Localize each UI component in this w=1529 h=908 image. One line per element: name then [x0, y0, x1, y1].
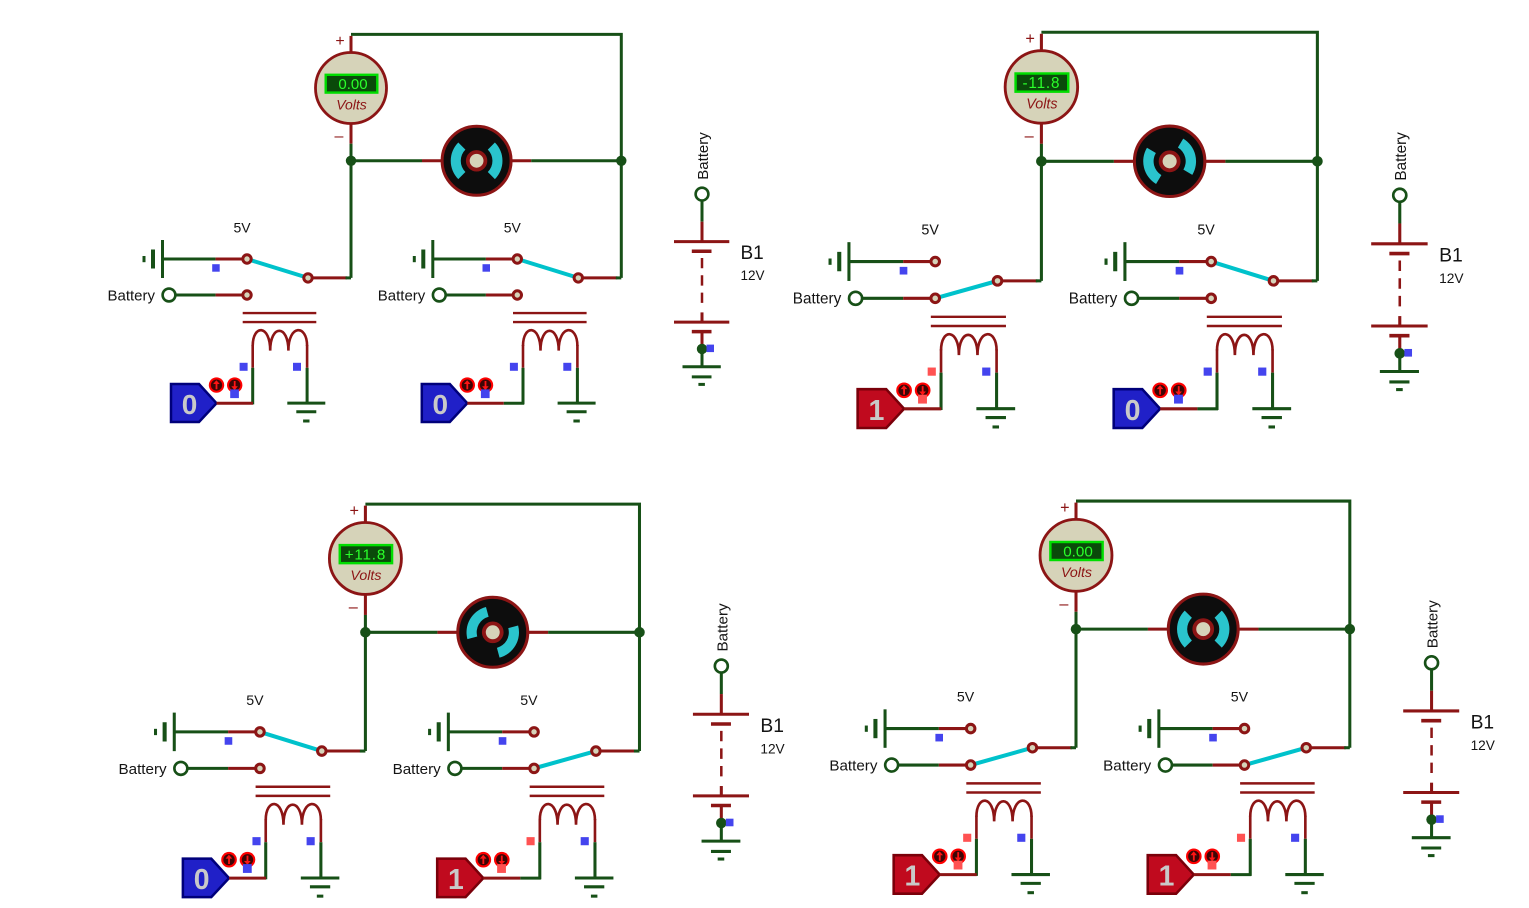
junction node right	[1345, 624, 1356, 635]
wire terminal to B1	[1430, 669, 1433, 711]
ground (B1 column)	[683, 367, 721, 385]
svg-text:12V: 12V	[760, 741, 785, 756]
decrement button (down arrow)	[1204, 849, 1220, 865]
terminal Battery (B1 column)	[1393, 189, 1406, 202]
wire riser to junction	[638, 632, 641, 751]
svg-text:12V: 12V	[1439, 271, 1464, 286]
junction node (B1 ground)	[1426, 814, 1437, 825]
wire junction to ground	[1430, 820, 1433, 838]
junction node right	[616, 156, 626, 166]
battery B1 cell 1	[1371, 244, 1427, 254]
svg-text:0: 0	[433, 389, 449, 420]
net state square (coil drive)	[510, 363, 518, 371]
coil right leg pin	[320, 819, 323, 878]
battery cell 5V (relay RL2 bottom-right)	[1140, 709, 1159, 747]
battery B1 dashed body	[1399, 261, 1402, 308]
relay core (RL1 top-right)	[931, 317, 1006, 326]
net state square (B1 ground)	[1404, 349, 1412, 357]
wire riser to junction	[1040, 161, 1043, 281]
switch contact NO	[931, 294, 940, 303]
switch contact NC	[931, 257, 940, 266]
net state square (coil ground)	[581, 837, 589, 845]
wire riser to junction	[1348, 629, 1351, 748]
ground (relay RL1 top-right)	[976, 409, 1015, 427]
net state square (coil ground)	[1017, 834, 1025, 842]
wire 5V to switch throw	[448, 730, 530, 733]
net state square (coil ground)	[1258, 368, 1266, 376]
motor M1 (bottom-left)	[458, 597, 528, 667]
battery B1 cell 1	[1403, 711, 1459, 721]
net state square (5V wire)	[900, 267, 908, 275]
battery B1 cell 2	[693, 786, 749, 805]
relay switch lever (RL1 top-right)	[935, 281, 997, 298]
svg-text:Battery: Battery	[1103, 757, 1152, 774]
wire junction to ground	[1398, 353, 1401, 371]
wire logic input to coil	[467, 402, 524, 405]
relay coil L2 (bottom-right)	[1250, 801, 1305, 822]
coil left leg pin	[1249, 816, 1252, 876]
wire 5V to switch throw	[1125, 260, 1207, 263]
increment button (up arrow)	[1152, 382, 1168, 398]
switch common pole	[592, 747, 601, 756]
junction node left	[346, 156, 356, 166]
svg-text:–: –	[349, 598, 359, 616]
wire B1 to ground	[1398, 336, 1401, 350]
battery B1 dashed body	[720, 731, 723, 778]
wire switch common to riser	[1002, 279, 1042, 282]
svg-text:Battery: Battery	[1425, 600, 1442, 649]
wire voltmeter+ top loop (top-left)	[351, 34, 621, 160]
coil left leg pin	[975, 816, 978, 876]
decrement button (down arrow)	[1171, 382, 1187, 398]
wire Battery terminal to switch throw	[461, 767, 530, 770]
battery cell 5V (relay RL1 top-left)	[144, 240, 163, 278]
wire logic input to coil	[1194, 873, 1251, 876]
decrement button (down arrow)	[915, 382, 931, 398]
junction node (B1 ground)	[1394, 348, 1405, 359]
battery B1 cell 1	[693, 714, 749, 724]
wire switch common to riser	[312, 276, 351, 279]
wire motor rail right	[511, 159, 622, 162]
switch contact NO	[1240, 761, 1249, 770]
voltmeter (top-left) reading 0.00	[316, 53, 387, 124]
svg-text:0.00: 0.00	[338, 76, 367, 93]
coil left leg pin	[264, 819, 267, 879]
svg-text:12V: 12V	[741, 268, 765, 283]
wire switch common to riser	[1311, 746, 1350, 749]
switch contact NO	[530, 764, 539, 773]
relay switch lever (RL1 bottom-left)	[260, 732, 322, 751]
net state square (coil ground)	[293, 363, 301, 371]
switch common pole	[993, 277, 1002, 286]
terminal Battery (relay RL1 top-left)	[107, 287, 175, 304]
wire logic input to coil	[483, 877, 540, 880]
relay switch lever (RL2 bottom-left)	[534, 751, 596, 768]
svg-text:Battery: Battery	[107, 287, 155, 304]
svg-text:Volts: Volts	[336, 96, 367, 112]
decrement button (down arrow)	[950, 849, 966, 865]
wire logic input to coil	[1160, 407, 1218, 410]
net state square (coil ground)	[1291, 834, 1299, 842]
svg-text:5V: 5V	[233, 220, 251, 236]
battery cell 5V (relay RL1 bottom-right)	[866, 709, 885, 747]
net state square (coil drive)	[928, 368, 936, 376]
coil left leg pin	[539, 819, 542, 879]
relay coil L1 (bottom-left)	[266, 804, 321, 825]
logicstate input (RL1 bottom-left) value 0	[183, 859, 229, 898]
pin state square (logic input)	[1174, 395, 1183, 404]
net state square (coil drive)	[963, 834, 971, 842]
switch common pole	[304, 274, 312, 282]
terminal Battery (relay RL1 bottom-left)	[118, 761, 187, 778]
pin state square (logic input)	[243, 864, 252, 873]
wire 5V to switch throw	[174, 730, 256, 733]
wire terminal to B1	[720, 673, 723, 715]
switch contact NC	[1240, 724, 1249, 733]
battery cell 5V (relay RL2 bottom-left)	[430, 713, 449, 752]
net state square (coil drive)	[1237, 834, 1245, 842]
switch common pole	[574, 274, 582, 282]
net state square (coil drive)	[527, 837, 535, 845]
logicstate input (RL1 top-left) value 0	[171, 384, 217, 422]
switch contact NC	[243, 255, 251, 263]
junction node left	[1071, 624, 1082, 635]
relay coil L1 (top-left)	[253, 330, 307, 350]
battery B1 dashed body	[1430, 728, 1433, 775]
net state square (5V wire)	[1176, 267, 1184, 275]
ground (B1 column)	[1380, 372, 1419, 390]
wire switch common to riser	[600, 750, 639, 753]
svg-text:–: –	[1025, 127, 1035, 145]
motor M1 (top-left)	[442, 126, 511, 195]
logicstate input (RL2 bottom-left) value 1	[437, 859, 483, 898]
svg-text:Battery: Battery	[1069, 291, 1118, 308]
coil right leg pin	[1271, 349, 1274, 408]
battery B1 cell 1	[674, 242, 729, 252]
svg-text:Volts: Volts	[1026, 97, 1057, 113]
ground (relay RL2 bottom-left)	[575, 878, 614, 896]
terminal Battery (relay RL2 top-left)	[378, 287, 446, 304]
wire 5V to switch throw	[1159, 727, 1241, 730]
coil left leg pin	[522, 345, 525, 404]
relay core (RL2 top-left)	[513, 313, 587, 322]
svg-text:Battery: Battery	[393, 761, 442, 778]
wire motor rail left	[351, 159, 443, 162]
ground (B1 column)	[702, 841, 741, 859]
battery cell 5V (relay RL1 bottom-left)	[156, 713, 175, 752]
pin state square (logic input)	[954, 861, 963, 870]
svg-text:+11.8: +11.8	[345, 547, 386, 564]
increment button (up arrow)	[221, 852, 237, 868]
terminal Battery (relay RL2 bottom-right)	[1103, 757, 1172, 774]
relay switch lever (RL2 bottom-right)	[1244, 748, 1306, 765]
pin state square (logic input)	[1208, 861, 1217, 870]
wire 5V to switch throw	[849, 260, 931, 263]
switch contact NO	[513, 291, 521, 299]
wire motor rail left	[1076, 628, 1169, 631]
increment button (up arrow)	[896, 382, 912, 398]
net state square (coil ground)	[563, 363, 571, 371]
switch contact NO	[1207, 294, 1216, 303]
pin voltmeter -	[364, 594, 367, 632]
logicstate input (RL2 top-left) value 0	[422, 384, 468, 422]
junction node (B1 ground)	[716, 818, 727, 829]
switch contact NC	[530, 728, 539, 737]
relay switch lever (RL2 top-right)	[1211, 262, 1273, 281]
battery B1 dashed body	[701, 258, 704, 304]
relay switch lever (RL2 top-left)	[517, 259, 578, 278]
battery B1 cell 2	[1403, 783, 1459, 802]
svg-text:+: +	[1025, 30, 1035, 48]
wire B1 to ground	[1430, 802, 1433, 816]
increment button (up arrow)	[460, 377, 475, 392]
decrement button (down arrow)	[227, 377, 242, 392]
wire Battery terminal to switch throw	[446, 294, 514, 297]
svg-text:+: +	[335, 33, 344, 50]
relay coil L1 (top-right)	[941, 334, 997, 355]
svg-text:Volts: Volts	[1061, 565, 1092, 581]
svg-text:5V: 5V	[520, 693, 538, 709]
pin voltmeter -	[350, 124, 353, 161]
svg-text:5V: 5V	[246, 693, 264, 709]
coil right leg pin	[1030, 816, 1033, 875]
svg-text:-11.8: -11.8	[1022, 75, 1060, 92]
wire Battery terminal to switch throw	[175, 294, 243, 297]
relay coil L2 (top-right)	[1217, 334, 1273, 355]
wire switch common to riser	[1278, 279, 1318, 282]
net state square (5V wire)	[1209, 734, 1217, 742]
wire B1 to ground	[720, 805, 723, 819]
switch contact NO	[966, 761, 975, 770]
svg-text:B1: B1	[1471, 713, 1495, 734]
junction node right	[1312, 156, 1323, 167]
pin voltmeter -	[1040, 123, 1043, 161]
battery cell 5V (relay RL2 top-left)	[414, 240, 433, 278]
switch contact NC	[513, 255, 521, 263]
increment button (up arrow)	[1186, 849, 1202, 865]
net state square (coil drive)	[240, 363, 248, 371]
motor M1 (bottom-right)	[1168, 594, 1238, 664]
wire B1 to ground	[701, 332, 704, 345]
coil right leg pin	[1304, 816, 1307, 875]
ground (relay RL2 top-left)	[558, 403, 596, 421]
relay core (RL1 bottom-left)	[256, 787, 331, 796]
ground (relay RL1 bottom-left)	[301, 878, 340, 896]
relay core (RL2 bottom-right)	[1240, 783, 1315, 792]
wire Battery terminal to switch throw	[862, 297, 931, 300]
wire motor rail right	[1204, 160, 1317, 163]
logicstate input (RL1 bottom-right) value 1	[894, 855, 940, 893]
decrement button (down arrow)	[478, 377, 493, 392]
svg-text:Volts: Volts	[350, 568, 381, 584]
svg-text:Battery: Battery	[1393, 132, 1410, 181]
svg-text:12V: 12V	[1471, 738, 1496, 753]
wire voltmeter+ top loop (bottom-left)	[365, 504, 639, 632]
relay core (RL1 top-left)	[243, 313, 317, 322]
wire motor rail right	[1238, 628, 1350, 631]
coil left leg pin	[1216, 349, 1219, 410]
net state square (B1 ground)	[707, 345, 715, 353]
terminal Battery (relay RL2 top-right)	[1069, 291, 1138, 308]
wire motor rail right	[527, 631, 639, 634]
wire logic input to coil	[940, 873, 977, 876]
net state square (5V wire)	[212, 264, 220, 272]
junction node right	[634, 627, 645, 638]
relay core (RL2 top-right)	[1207, 317, 1282, 326]
svg-text:Battery: Battery	[695, 132, 712, 180]
voltmeter (bottom-right) reading 0.00	[1040, 519, 1112, 591]
wire terminal to B1	[1398, 202, 1401, 244]
svg-text:+: +	[1060, 499, 1069, 517]
svg-text:1: 1	[1159, 861, 1175, 893]
ground (B1 column)	[1412, 838, 1451, 856]
net state square (B1 ground)	[726, 819, 734, 827]
net state square (B1 ground)	[1436, 815, 1444, 823]
pin voltmeter +	[350, 36, 353, 53]
battery B1 cell 2	[674, 312, 729, 331]
ground (relay RL1 bottom-right)	[1011, 875, 1049, 893]
pin voltmeter +	[1040, 34, 1043, 51]
decrement button (down arrow)	[494, 852, 510, 868]
wire logic input to coil	[217, 402, 254, 405]
net state square (coil drive)	[1204, 368, 1212, 376]
switch common pole	[318, 747, 327, 756]
decrement button (down arrow)	[240, 852, 256, 868]
ground (relay RL2 bottom-right)	[1285, 875, 1323, 893]
pin voltmeter +	[1075, 503, 1078, 520]
increment button (up arrow)	[932, 849, 948, 865]
wire 5V to switch throw	[885, 727, 967, 730]
coil right leg pin	[594, 819, 597, 878]
pin voltmeter +	[364, 506, 367, 523]
wire riser to junction	[620, 161, 623, 278]
terminal Battery (relay RL1 bottom-right)	[829, 757, 898, 774]
wire voltmeter+ top loop (top-right)	[1041, 32, 1317, 161]
svg-text:B1: B1	[1439, 245, 1463, 267]
relay core (RL2 bottom-left)	[530, 787, 605, 796]
switch contact NO	[256, 764, 265, 773]
svg-text:0: 0	[182, 389, 198, 420]
switch contact NC	[966, 724, 975, 733]
net state square (5V wire)	[483, 264, 491, 272]
switch common pole	[1302, 743, 1311, 752]
svg-text:5V: 5V	[957, 690, 975, 706]
pin state square (logic input)	[497, 864, 506, 873]
motor M1 (top-right)	[1134, 126, 1204, 196]
logicstate input (RL2 bottom-right) value 1	[1148, 855, 1194, 893]
battery cell 5V (relay RL1 top-right)	[830, 242, 849, 281]
net state square (coil ground)	[307, 837, 315, 845]
wire junction to ground	[720, 823, 723, 841]
wire voltmeter+ top loop (bottom-right)	[1076, 501, 1350, 629]
wire logic input to coil	[229, 877, 266, 880]
voltmeter (bottom-left) reading +11.8	[329, 522, 401, 594]
coil right leg pin	[576, 345, 579, 403]
pin state square (logic input)	[918, 395, 927, 404]
relay coil L1 (bottom-right)	[976, 801, 1031, 822]
pin voltmeter -	[1075, 591, 1078, 629]
ground (relay RL1 top-left)	[287, 403, 325, 421]
svg-text:5V: 5V	[921, 223, 939, 239]
svg-text:Battery: Battery	[118, 761, 167, 778]
coil right leg pin	[306, 345, 309, 403]
terminal Battery (B1 column)	[1425, 656, 1438, 669]
wire Battery terminal to switch throw	[898, 764, 966, 767]
junction node (B1 ground)	[697, 344, 707, 354]
svg-text:+: +	[350, 502, 359, 520]
wire junction to ground	[701, 349, 704, 367]
wire riser to junction	[1075, 629, 1078, 748]
net state square (coil ground)	[982, 368, 990, 376]
wire riser to junction	[364, 632, 367, 751]
net state square (5V wire)	[935, 734, 943, 742]
relay coil L2 (bottom-left)	[540, 804, 595, 825]
junction node left	[1036, 156, 1047, 167]
switch contact NC	[256, 728, 265, 737]
battery cell 5V (relay RL2 top-right)	[1106, 242, 1125, 281]
terminal Battery (relay RL2 bottom-left)	[393, 761, 462, 778]
junction node left	[360, 627, 371, 638]
wire 5V to switch throw	[433, 258, 514, 261]
relay coil L2 (top-left)	[523, 330, 577, 350]
wire motor rail left	[365, 631, 458, 634]
switch contact NC	[1207, 257, 1216, 266]
svg-text:–: –	[1059, 595, 1068, 613]
relay switch lever (RL1 bottom-right)	[971, 748, 1033, 765]
wire motor rail left	[1041, 160, 1135, 163]
wire switch common to riser	[326, 750, 365, 753]
pin state square (logic input)	[481, 389, 490, 398]
relay switch lever (RL1 top-left)	[247, 259, 308, 278]
wire riser to junction	[1316, 161, 1319, 281]
switch common pole	[1269, 277, 1278, 286]
logicstate input (RL1 top-right) value 1	[858, 389, 904, 428]
coil left leg pin	[940, 349, 943, 410]
pin state square (logic input)	[230, 389, 239, 398]
svg-text:B1: B1	[741, 243, 764, 264]
terminal Battery (relay RL1 top-right)	[793, 291, 862, 308]
increment button (up arrow)	[476, 852, 492, 868]
svg-text:5V: 5V	[1197, 223, 1215, 239]
voltmeter (top-right) reading -11.8	[1005, 51, 1077, 123]
wire logic input to coil	[904, 407, 941, 410]
svg-text:0: 0	[1125, 395, 1141, 427]
ground (relay RL2 top-right)	[1252, 409, 1291, 427]
wire Battery terminal to switch throw	[1138, 297, 1207, 300]
svg-text:5V: 5V	[504, 220, 522, 236]
coil left leg pin	[251, 345, 254, 404]
svg-text:Battery: Battery	[714, 603, 731, 652]
switch common pole	[1028, 743, 1037, 752]
wire switch common to riser	[583, 276, 622, 279]
svg-text:5V: 5V	[1231, 690, 1249, 706]
relay core (RL1 bottom-right)	[966, 783, 1041, 792]
logicstate input (RL2 top-right) value 0	[1114, 389, 1160, 428]
wire switch common to riser	[1037, 746, 1076, 749]
net state square (5V wire)	[499, 737, 507, 745]
battery B1 cell 2	[1371, 316, 1427, 336]
net state square (5V wire)	[225, 737, 233, 745]
switch contact NO	[243, 291, 251, 299]
coil right leg pin	[995, 349, 998, 408]
wire 5V to switch throw	[163, 258, 244, 261]
svg-text:1: 1	[448, 864, 464, 896]
svg-text:–: –	[335, 128, 344, 145]
terminal Battery (B1 column)	[696, 188, 709, 201]
increment button (up arrow)	[209, 377, 224, 392]
svg-text:Battery: Battery	[829, 757, 878, 774]
svg-text:Battery: Battery	[793, 291, 842, 308]
